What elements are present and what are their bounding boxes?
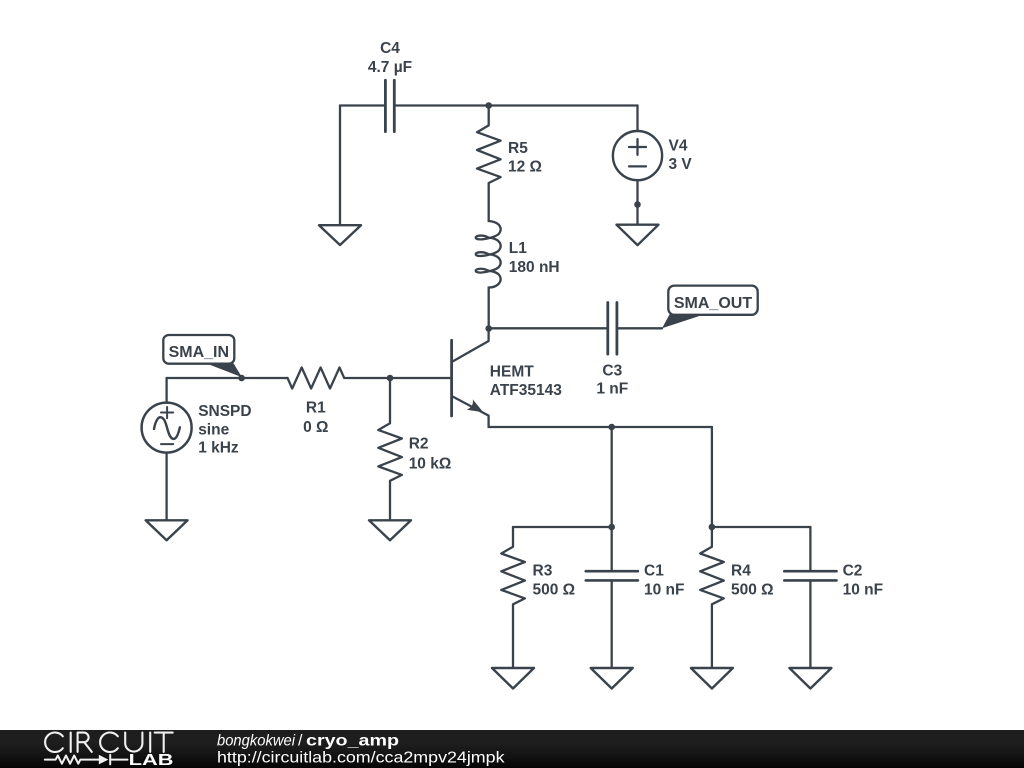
net flag SMA_IN (163, 335, 242, 377)
svg-text:500 Ω: 500 Ω (731, 581, 774, 598)
svg-text:R4: R4 (731, 563, 751, 580)
svg-text:C3: C3 (602, 363, 622, 380)
node emitter rail / C1 branch (608, 424, 615, 431)
wire R4 branch vertical (711, 427, 713, 527)
svg-text:1 kHz: 1 kHz (198, 440, 239, 457)
svg-text:SMA_OUT: SMA_OUT (674, 295, 752, 312)
wire base junction to transistor (390, 377, 451, 379)
net flag SMA_OUT (662, 286, 758, 329)
ground (R2) (369, 520, 411, 540)
wire collector node to C3 (489, 327, 607, 329)
ground (V4) (617, 225, 659, 246)
logo letter I (70, 733, 72, 752)
ground (SNSPD) (146, 520, 188, 540)
svg-text:R3: R3 (533, 563, 553, 580)
voltage source V1 SNSPD (142, 378, 252, 457)
svg-text:R2: R2 (409, 436, 429, 453)
capacitor C3 (596, 303, 628, 398)
wire C1 branch vertical (611, 427, 613, 527)
node V4 ground (634, 201, 641, 208)
inductor L1 (476, 221, 560, 288)
capacitor C2 (784, 527, 883, 668)
svg-text:180 nH: 180 nH (509, 259, 560, 276)
resistor R2 (378, 378, 451, 520)
svg-text:ATF35143: ATF35143 (490, 382, 562, 399)
svg-text:C2: C2 (843, 563, 863, 580)
resistor R5 (477, 106, 542, 222)
svg-text:R1: R1 (306, 399, 326, 416)
resistor R1 (288, 368, 391, 437)
svg-text:cryo_amp: cryo_amp (306, 733, 399, 750)
node right rail / R4 (709, 524, 716, 531)
wire emitter rail (489, 426, 712, 428)
ground (C1) (591, 668, 633, 689)
svg-text:3 V: 3 V (669, 156, 693, 173)
node base junction (387, 375, 394, 382)
svg-text:SNSPD: SNSPD (198, 403, 251, 420)
transistor Q1 HEMT (452, 329, 563, 428)
svg-text:12 Ω: 12 Ω (508, 159, 542, 176)
logo letter T (155, 733, 173, 752)
svg-text:0 Ω: 0 Ω (303, 419, 328, 436)
logo letter C (100, 733, 118, 753)
svg-text:bongkokwei: bongkokwei (217, 733, 295, 750)
ground (R4) (691, 668, 733, 689)
svg-text:R5: R5 (508, 140, 528, 157)
wire SNSPD to R1 (167, 377, 288, 379)
logo letter I (149, 733, 151, 752)
svg-text:10 nF: 10 nF (843, 581, 883, 598)
svg-text:L1: L1 (509, 240, 527, 257)
logo resistor squiggle (45, 756, 99, 764)
svg-text:/: / (298, 733, 303, 750)
svg-text:4.7 µF: 4.7 µF (368, 59, 412, 76)
svg-text:V4: V4 (669, 138, 688, 155)
resistor R3 (501, 527, 575, 668)
svg-text:SMA_IN: SMA_IN (169, 344, 229, 361)
logo letter C (45, 733, 63, 753)
svg-text:1 nF: 1 nF (596, 381, 628, 398)
logo letter R (78, 733, 92, 752)
node left rail / C1 (608, 524, 615, 531)
svg-text:LAB: LAB (129, 752, 174, 768)
svg-text:HEMT: HEMT (490, 363, 534, 380)
wire L1 to collector node (488, 288, 490, 329)
svg-text:http://circuitlab.com/cca2mpv2: http://circuitlab.com/cca2mpv24jmpk (217, 749, 506, 766)
ground (C2) (789, 668, 831, 689)
svg-text:C4: C4 (380, 40, 400, 57)
wire C4 left to ground drop (339, 106, 341, 225)
wire C3 to SMA_OUT (618, 327, 662, 329)
svg-text:sine: sine (198, 421, 229, 438)
svg-text:500 Ω: 500 Ω (533, 581, 576, 598)
wire left bypass rail (513, 526, 612, 528)
logo diode (99, 755, 109, 765)
svg-text:10 kΩ: 10 kΩ (409, 456, 452, 473)
resistor R4 (700, 527, 773, 668)
node SMA_IN tap (238, 375, 245, 382)
wire top rail left of C4 (340, 104, 384, 106)
voltage source V4 (613, 106, 693, 181)
wire right bypass rail (712, 526, 811, 528)
node junction top rail / R5 (485, 102, 492, 109)
wire top rail C4 to V4 corner (396, 104, 638, 106)
ground (R3) (492, 668, 534, 689)
ground (C4 left) (319, 225, 361, 245)
wire SNSPD bottom to ground (165, 453, 167, 520)
logo letter U (125, 733, 142, 752)
node collector junction (485, 325, 492, 332)
wire V4 bottom to ground (636, 180, 638, 224)
svg-text:10 nF: 10 nF (644, 581, 684, 598)
svg-text:C1: C1 (644, 563, 664, 580)
capacitor C1 (586, 527, 685, 668)
capacitor C4 (368, 40, 412, 132)
